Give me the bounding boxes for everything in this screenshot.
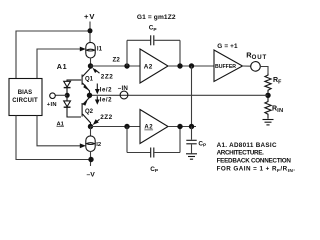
wire: I2 to -V rail bbox=[90, 151, 92, 166]
svg-text:2Z2: 2Z2 bbox=[100, 114, 113, 121]
ground (under RIN) bbox=[263, 120, 274, 125]
wire: bias inner loop top to I1 bbox=[37, 49, 83, 79]
node 2Z2 (top) bbox=[88, 63, 93, 68]
node: Cp return bottom bbox=[177, 124, 182, 129]
svg-text:FEEDBACK CONNECTION: FEEDBACK CONNECTION bbox=[217, 158, 292, 165]
resistor RF bbox=[265, 74, 271, 93]
svg-text:+IN: +IN bbox=[47, 102, 57, 108]
wire: buffer to output terminal bbox=[243, 65, 252, 67]
wire: bottom A2 output bbox=[168, 126, 196, 128]
svg-text:RIN: RIN bbox=[272, 105, 283, 114]
svg-text:I2: I2 bbox=[96, 142, 101, 148]
node: Cp return on A2 output bbox=[177, 63, 182, 68]
wire: -IN net from emitters to feedback junction bbox=[90, 94, 269, 96]
bias circuit block bbox=[9, 79, 42, 116]
caption text bbox=[217, 142, 296, 174]
wire: bottom node to I2 bbox=[90, 127, 92, 136]
terminal -IN bbox=[120, 91, 128, 99]
wire: A2 output to buffer bbox=[168, 65, 214, 67]
svg-text:Z2: Z2 bbox=[113, 57, 121, 64]
svg-text:ARCHITECTURE.: ARCHITECTURE. bbox=[217, 150, 264, 157]
wire: output to RF bbox=[260, 67, 268, 74]
wire: I1 to Z2 node bbox=[90, 58, 92, 66]
svg-text:FOR GAIN = 1 + RF/RIN.: FOR GAIN = 1 + RF/RIN. bbox=[217, 166, 296, 174]
svg-text:RF: RF bbox=[273, 77, 282, 86]
svg-text:BIAS: BIAS bbox=[18, 90, 32, 96]
svg-text:A2: A2 bbox=[144, 125, 153, 131]
capacitor CP (bottom feedback) bbox=[127, 127, 180, 175]
svg-text:CP: CP bbox=[150, 166, 159, 174]
svg-text:ROUT: ROUT bbox=[246, 50, 267, 61]
svg-text:A1: A1 bbox=[57, 121, 65, 127]
wire: bias inner loop bottom to I2 bbox=[37, 116, 83, 146]
node: Cp tap on A2 input bbox=[124, 63, 129, 68]
wire: Z2 node to A2 input bbox=[91, 65, 141, 67]
node: inter-stage rail tap bbox=[189, 63, 194, 68]
transistor Q2 bbox=[82, 95, 94, 126]
svg-text:–IN: –IN bbox=[118, 85, 129, 92]
svg-text:CP: CP bbox=[198, 140, 207, 148]
svg-text:Ie/2: Ie/2 bbox=[100, 86, 112, 93]
resistor RIN bbox=[265, 95, 271, 119]
wire: +V rail down to I1 bbox=[89, 22, 91, 43]
diode D2 bbox=[64, 95, 81, 117]
svg-text:Q1: Q1 bbox=[85, 76, 94, 82]
leader arrow to node, label 2Z2 (top) bbox=[95, 69, 100, 73]
node: junction -V rail / bias wire bbox=[88, 157, 93, 162]
capacitor CP (top feedback) bbox=[127, 24, 180, 66]
svg-text:–V: –V bbox=[87, 172, 96, 179]
svg-text:2Z2: 2Z2 bbox=[101, 74, 114, 81]
current source I1 bbox=[86, 42, 103, 58]
terminal ROUT bbox=[251, 62, 261, 72]
capacitor CP (shunt) bbox=[186, 127, 207, 154]
op-amp A2 (bottom) bbox=[140, 110, 168, 144]
svg-text:G = +1: G = +1 bbox=[217, 43, 238, 50]
node: Cp tap bottom bbox=[124, 124, 129, 129]
svg-text:G1 = gm1Z2: G1 = gm1Z2 bbox=[137, 14, 176, 21]
svg-text:I1: I1 bbox=[97, 46, 103, 53]
terminal +IN bbox=[55, 94, 67, 96]
node: junction +V rail / bias wire bbox=[88, 28, 93, 33]
diode D1 bbox=[64, 80, 81, 95]
arrowhead into I2 bbox=[80, 143, 86, 148]
wire: rail joining both A2 outputs bbox=[191, 66, 193, 127]
ground (shunt cap) bbox=[186, 154, 197, 159]
wire: bottom node to A2 input bbox=[91, 126, 141, 128]
svg-text:BUFFER: BUFFER bbox=[215, 64, 236, 70]
wire: bias outer loop bottom to -V rail bbox=[16, 116, 91, 160]
wire: bias outer loop top to +V rail bbox=[16, 31, 90, 79]
node: shunt cap tap bbox=[189, 124, 194, 129]
svg-text:A1. AD8011 BASIC: A1. AD8011 BASIC bbox=[217, 142, 277, 149]
node: emitters / -IN bbox=[87, 93, 92, 98]
current arrows Ie/2 bbox=[95, 84, 112, 105]
svg-text:+V: +V bbox=[84, 12, 95, 21]
svg-text:Q2: Q2 bbox=[85, 109, 94, 115]
leader arrow to node, label 2Z2 (bottom) bbox=[95, 119, 100, 123]
arrowhead into I1 bbox=[80, 47, 86, 52]
buffer U1 bbox=[214, 50, 243, 82]
current source I2 bbox=[86, 136, 101, 152]
op-amp A2 (top) bbox=[140, 49, 168, 83]
svg-text:A2: A2 bbox=[144, 63, 153, 70]
node 2Z2 (bottom) bbox=[88, 124, 93, 129]
transistor Q1 bbox=[67, 68, 94, 95]
node: +IN / diode junction bbox=[65, 93, 70, 98]
svg-text:A1: A1 bbox=[57, 62, 68, 71]
svg-text:Ie/2: Ie/2 bbox=[100, 97, 112, 104]
node: feedback junction bbox=[265, 93, 270, 98]
svg-text:CP: CP bbox=[149, 24, 158, 32]
svg-text:CIRCUIT: CIRCUIT bbox=[12, 98, 38, 104]
